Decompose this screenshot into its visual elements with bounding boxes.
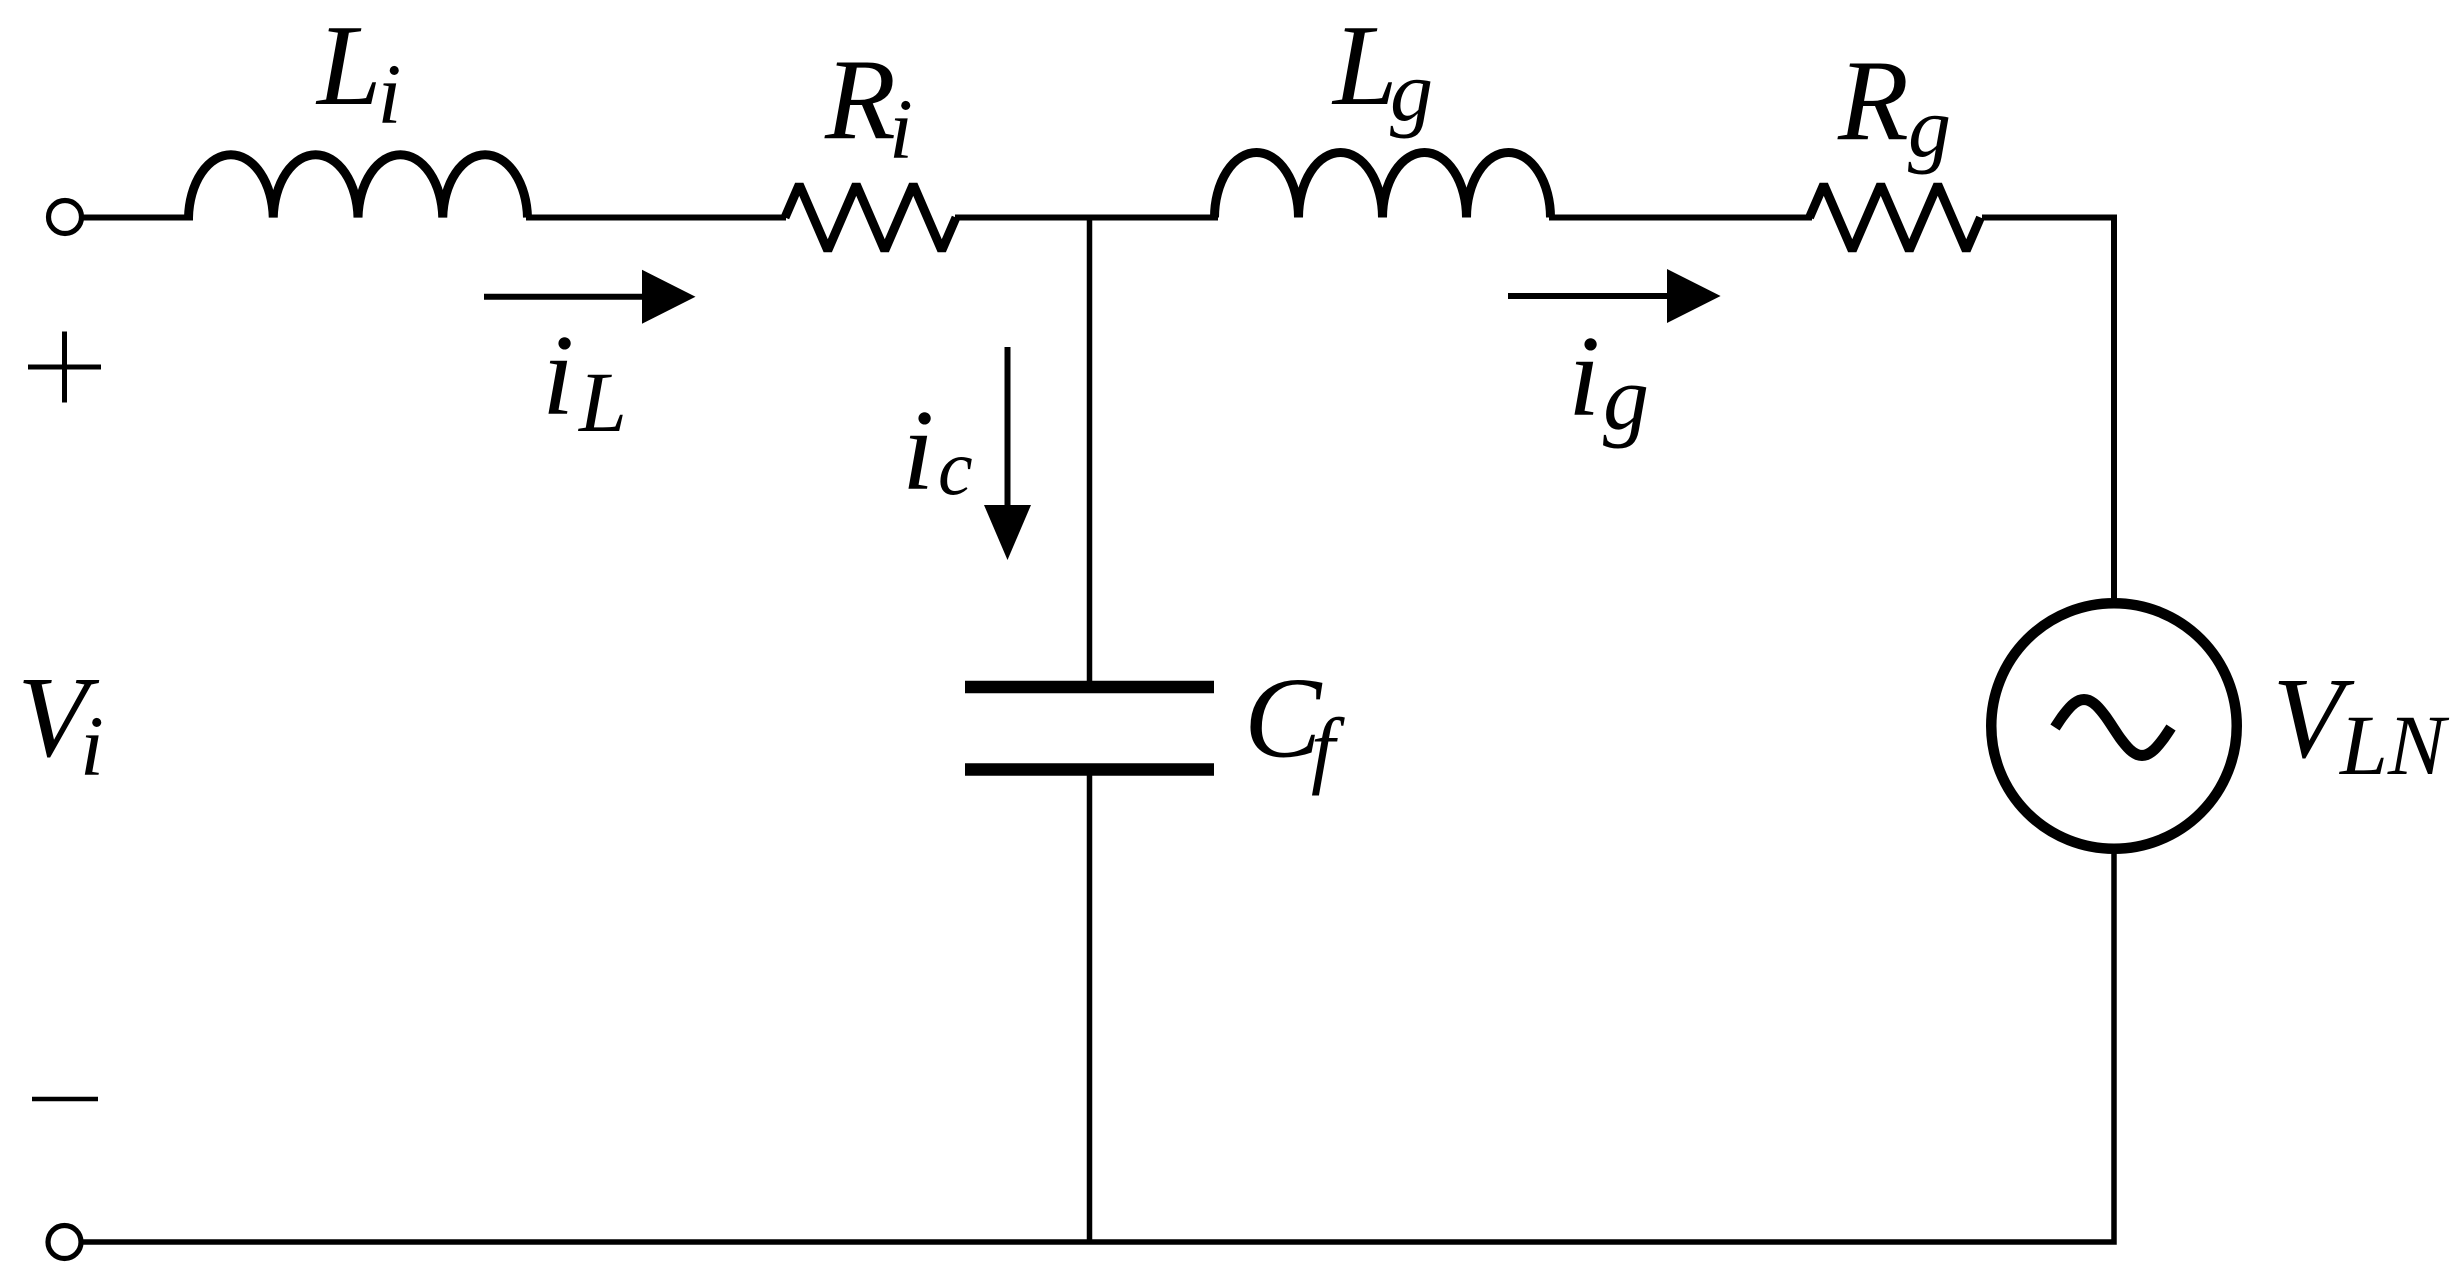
svg-text:g: g xyxy=(1908,79,1951,175)
inductor Lg xyxy=(1215,153,1551,218)
wire Rg to right corner xyxy=(1982,218,2114,602)
capacitor Cf bottom plate xyxy=(965,763,1214,776)
label Ri xyxy=(824,36,913,177)
node junction capacitor branch top xyxy=(1087,218,1093,683)
arrow ic xyxy=(984,347,1031,560)
arrow iL xyxy=(484,270,696,324)
resistor Ri xyxy=(785,185,956,251)
wire Li to Ri xyxy=(526,215,786,221)
label Lg xyxy=(1331,2,1433,139)
svg-text:i: i xyxy=(889,81,913,177)
wire capacitor bottom to bottom wire xyxy=(1087,775,1093,1242)
label ig xyxy=(1568,313,1649,449)
svg-text:i: i xyxy=(902,387,934,515)
label Li xyxy=(315,2,401,142)
svg-text:R: R xyxy=(1837,37,1909,165)
svg-text:g: g xyxy=(1603,347,1649,449)
wire Lg to Rg xyxy=(1549,215,1812,221)
svg-text:L: L xyxy=(315,2,382,130)
svg-text:L: L xyxy=(1331,2,1398,130)
label iL xyxy=(542,312,627,450)
label Rg xyxy=(1837,37,1951,175)
capacitor Cf top plate xyxy=(965,681,1214,694)
inductor Li xyxy=(189,155,528,218)
terminal bottom-left xyxy=(48,1226,81,1259)
label Vi xyxy=(17,654,104,794)
arrow ig xyxy=(1508,269,1721,323)
wire Ri to Lg (through capacitor node) xyxy=(955,215,1218,221)
terminal top-left xyxy=(49,201,82,234)
svg-text:c: c xyxy=(938,424,973,511)
label Cf xyxy=(1244,655,1345,797)
svg-text:LN: LN xyxy=(2338,697,2450,793)
svg-text:R: R xyxy=(824,36,896,164)
svg-text:g: g xyxy=(1390,43,1433,139)
svg-text:i: i xyxy=(1568,313,1600,441)
wire AC source to bottom-right corner xyxy=(81,851,2114,1242)
svg-text:i: i xyxy=(80,698,104,794)
plus sign xyxy=(28,332,101,403)
resistor Rg xyxy=(1810,185,1981,251)
svg-text:i: i xyxy=(542,312,574,440)
wire top-left to inductor Li xyxy=(82,215,194,221)
svg-text:i: i xyxy=(378,46,402,142)
label ic xyxy=(902,387,973,515)
minus sign xyxy=(32,1097,98,1102)
svg-text:L: L xyxy=(577,354,627,450)
AC source VLN xyxy=(1991,603,2237,849)
label VLN xyxy=(2273,655,2450,793)
